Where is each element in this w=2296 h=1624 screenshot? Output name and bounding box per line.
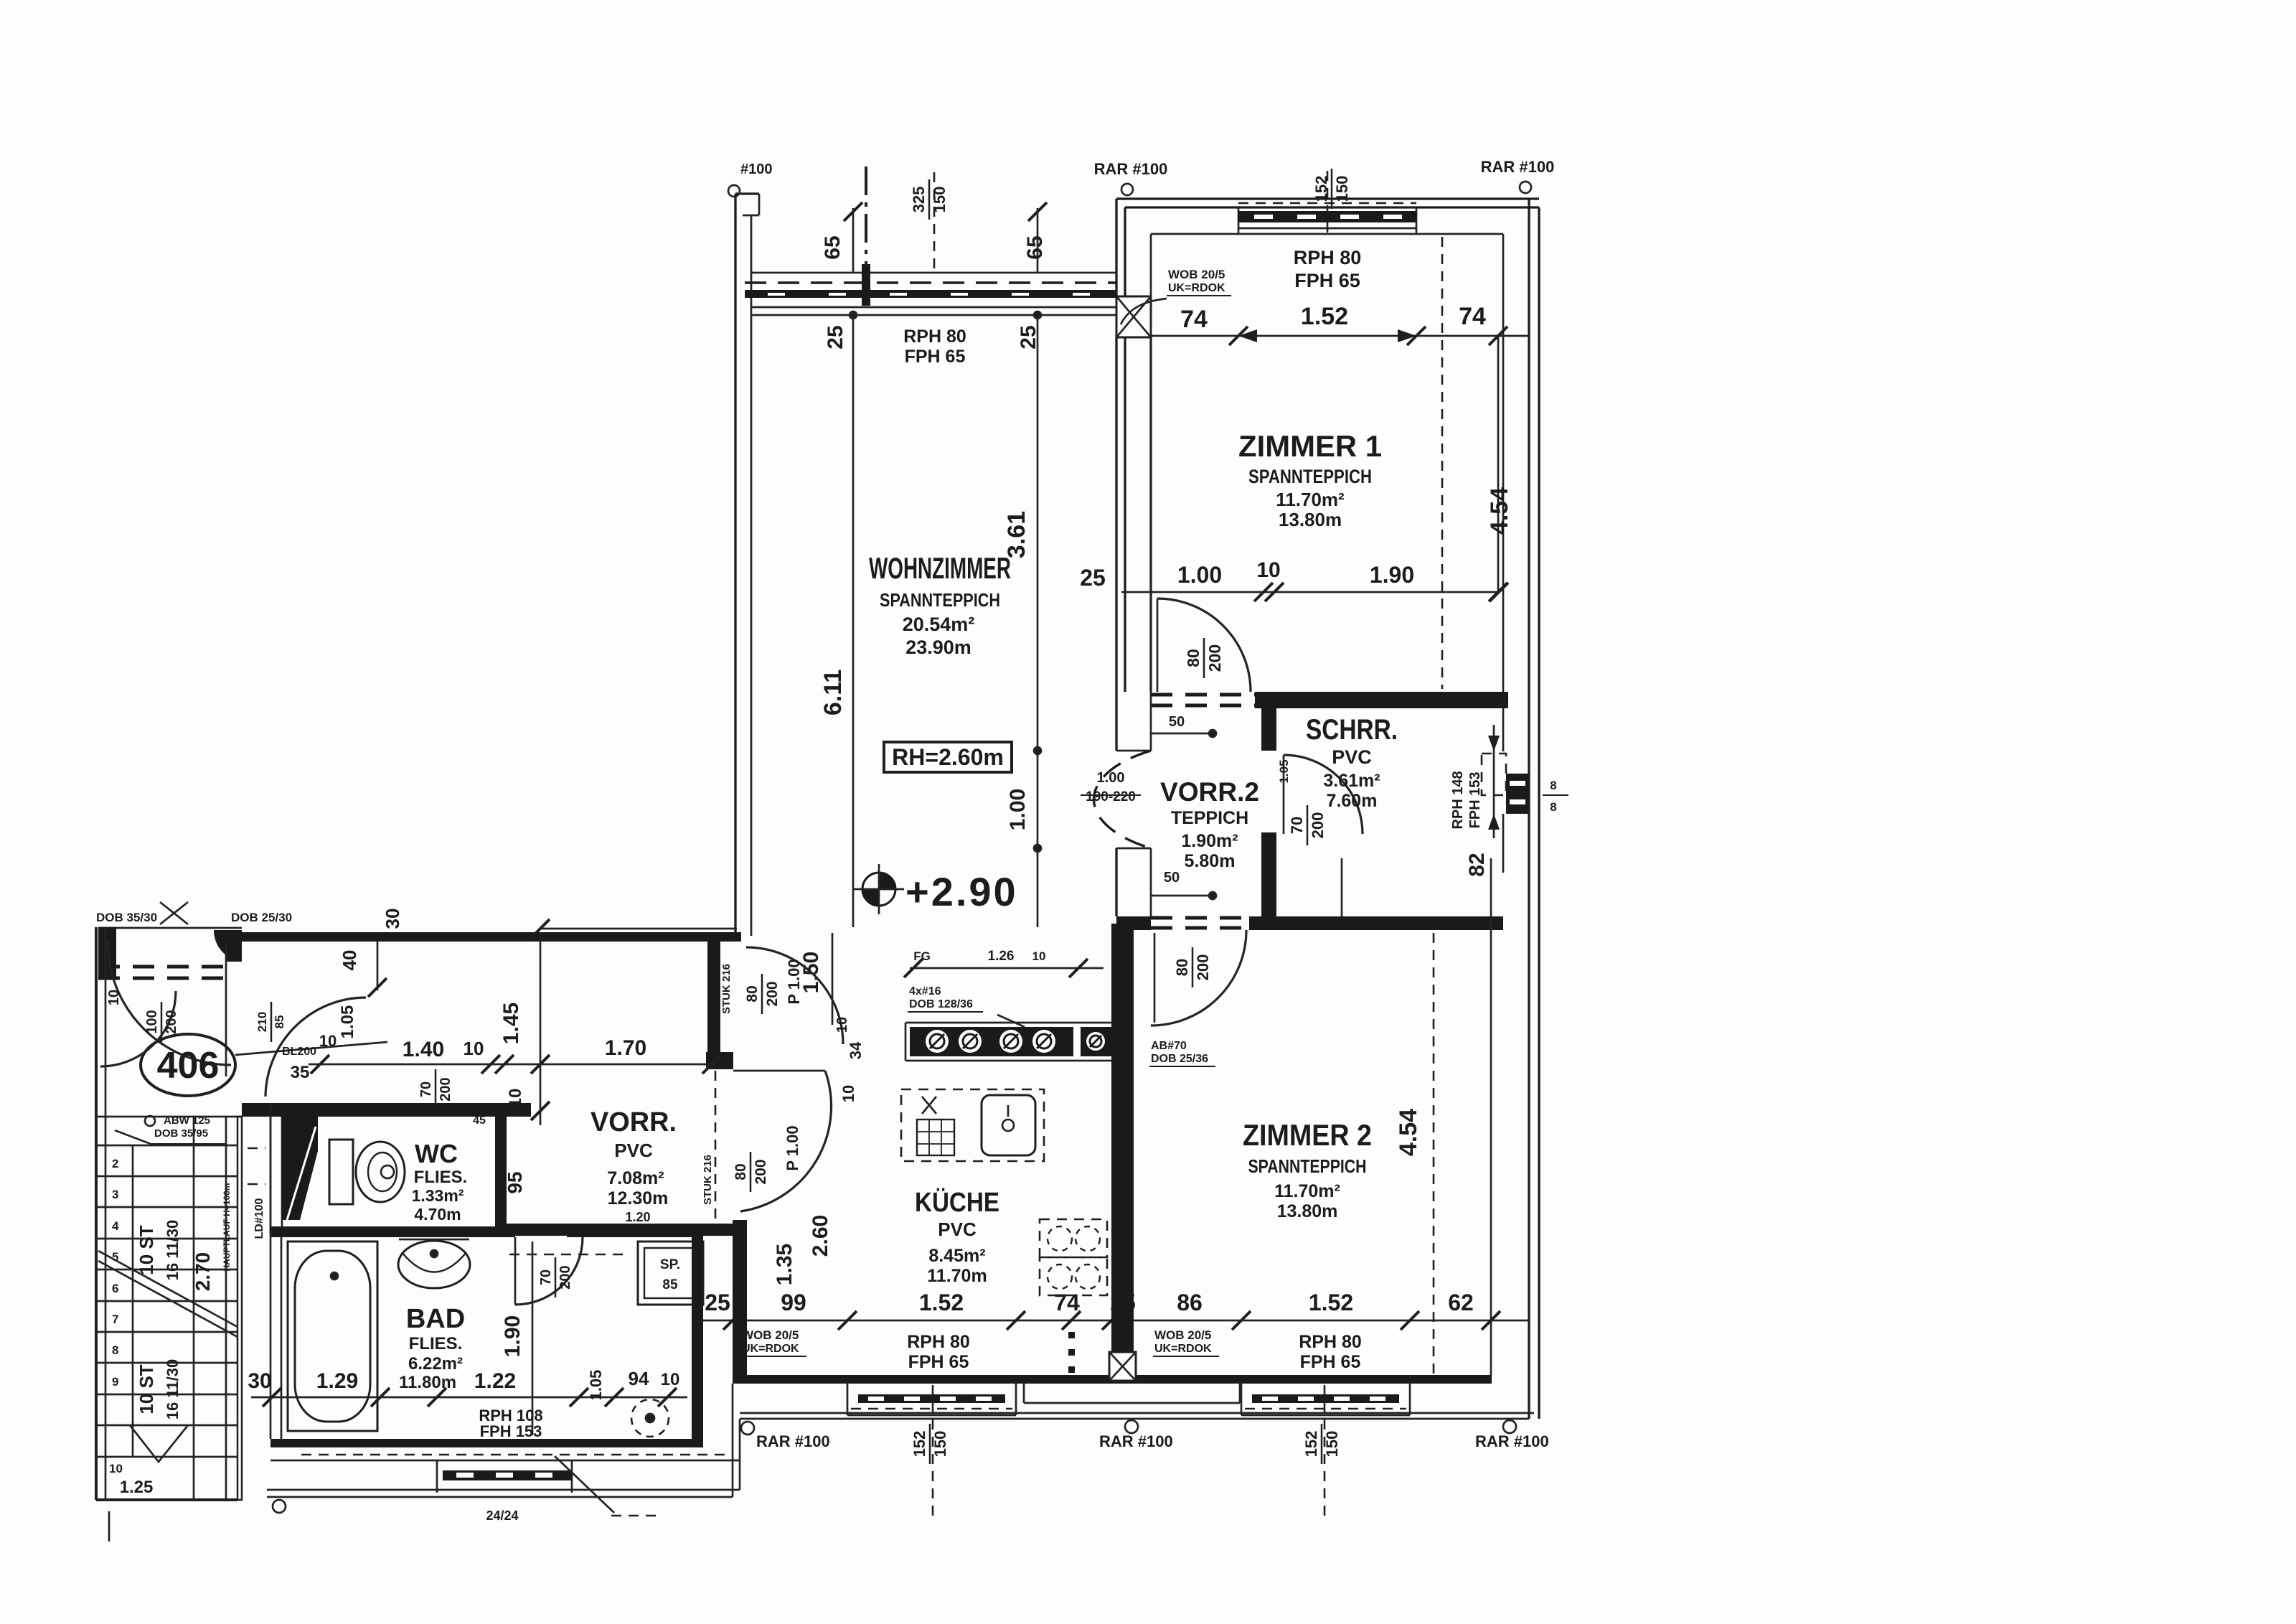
svg-text:70: 70 [1288,817,1306,834]
wall between WOHNZIMMER and ZIMMER1 block [1115,337,1117,692]
BAD west wall [270,1235,272,1439]
hall dashed lines [98,965,230,969]
small labels near entrance [255,1002,286,1042]
svg-text:SPANNTEPPICH: SPANNTEPPICH [1248,1155,1367,1177]
svg-text:200: 200 [1205,644,1224,672]
svg-text:UK=RDOK: UK=RDOK [742,1343,799,1355]
svg-text:16 11/30: 16 11/30 [164,1220,182,1280]
svg-text:5.80m: 5.80m [1185,851,1236,871]
svg-text:FPH 65: FPH 65 [1300,1352,1361,1372]
three dots door marker [1068,1332,1075,1338]
svg-text:AB#70: AB#70 [1151,1040,1187,1052]
svg-text:1.45: 1.45 [499,1003,523,1044]
svg-text:PVC: PVC [1332,746,1372,768]
small hatch square [922,1097,936,1114]
svg-text:1.35: 1.35 [773,1244,796,1285]
svg-text:PVC: PVC [938,1219,977,1240]
svg-text:99: 99 [781,1290,806,1315]
bottom dim row BAD y1947 [251,1397,687,1399]
wall south of VORR.2/SCHRR [1249,916,1503,930]
bottom window zimmer2 [1241,1382,1243,1415]
svg-text:UK=RDOK: UK=RDOK [1168,282,1225,294]
svg-text:23.90m: 23.90m [905,637,971,658]
svg-text:10: 10 [1256,558,1280,582]
svg-text:8: 8 [1550,779,1556,792]
stair direction diagonals [98,1251,237,1327]
svg-text:1.00: 1.00 [1177,562,1222,588]
svg-text:74: 74 [1180,306,1208,333]
sink unit dashed [901,1089,1044,1161]
svg-text:10 ST: 10 ST [136,1225,157,1275]
window axes bottom [932,1385,934,1523]
svg-text:1.05: 1.05 [338,1005,357,1039]
stove dashed squares [1040,1219,1107,1257]
stair hall west wall [95,927,98,1500]
dim 3.61 / 1.00 vertical [1037,315,1039,927]
SP box [638,1242,703,1305]
arch opening WOHNZIMMER to VORR.2 (dashed) [1094,751,1152,848]
svg-text:62: 62 [1448,1290,1474,1315]
svg-text:200: 200 [753,1159,769,1184]
svg-text:BL200: BL200 [282,1046,316,1058]
svg-text:RAR #100: RAR #100 [1099,1432,1173,1450]
svg-text:200: 200 [1194,954,1212,981]
wall WOHNZ/VORR2 segments [1115,692,1117,751]
duct wall right of stairs [270,1117,272,1235]
svg-text:6.22m²: 6.22m² [408,1354,463,1374]
svg-text:12.30m: 12.30m [608,1188,669,1208]
window right wall (SCHRR east) [1506,774,1529,814]
svg-text:10: 10 [106,990,122,1005]
svg-text:FPH 153: FPH 153 [1467,772,1483,829]
svg-text:RAR #100: RAR #100 [1094,160,1168,178]
survey point +2.90 [862,873,895,906]
svg-text:SP.: SP. [660,1257,680,1272]
svg-text:16 11/30: 16 11/30 [164,1359,182,1419]
svg-text:UK=RDOK: UK=RDOK [1154,1343,1212,1355]
svg-text:P 1.00: P 1.00 [784,1125,801,1170]
svg-text:WOB 20/5: WOB 20/5 [1154,1328,1211,1342]
kitchen counter with burners [910,1027,1073,1056]
svg-text:1.90: 1.90 [1370,562,1414,588]
svg-text:74: 74 [1054,1290,1080,1315]
wall WOHNZIMMER west [734,194,736,936]
svg-text:FPH 65: FPH 65 [908,1352,969,1372]
svg-text:25: 25 [824,325,847,349]
svg-text:11.80m: 11.80m [399,1373,456,1392]
terrace below BAD [301,1454,732,1456]
svg-text:4.54: 4.54 [1395,1109,1422,1156]
svg-text:65: 65 [821,235,844,259]
svg-text:7: 7 [112,1313,118,1326]
svg-text:1.20: 1.20 [625,1210,650,1224]
svg-text:9: 9 [112,1375,118,1389]
entrance door arc 406 [108,942,231,1065]
svg-text:RPH 148: RPH 148 [1450,771,1466,829]
svg-text:1.26: 1.26 [988,949,1015,964]
svg-text:6: 6 [112,1282,118,1295]
svg-text:ZIMMER 1: ZIMMER 1 [1238,429,1382,463]
svg-text:1.52: 1.52 [1309,1290,1353,1315]
X mark above [160,902,188,924]
svg-text:SPANNTEPPICH: SPANNTEPPICH [880,589,1000,611]
svg-text:WOHNZIMMER: WOHNZIMMER [869,551,1011,585]
wall BAD south [270,1439,703,1447]
svg-text:4x#16: 4x#16 [909,985,941,998]
svg-text:35: 35 [291,1063,310,1082]
door arc SCHRR [1284,755,1363,834]
svg-text:10: 10 [834,1017,850,1033]
svg-text:86: 86 [1177,1290,1203,1315]
svg-text:200: 200 [764,981,781,1006]
svg-text:50: 50 [1164,870,1180,886]
terrace line south [740,1412,1534,1414]
svg-text:24/24: 24/24 [486,1508,518,1523]
svg-text:85: 85 [273,1015,286,1029]
svg-text:190-220: 190-220 [1086,789,1136,804]
svg-text:150: 150 [1323,1431,1341,1458]
svg-text:1.52: 1.52 [919,1290,964,1315]
svg-text:RPH 80: RPH 80 [907,1332,970,1352]
svg-text:2.60: 2.60 [809,1215,832,1257]
junction X box bottom [1109,1352,1136,1381]
svg-text:70: 70 [538,1269,554,1285]
svg-text:FLIES.: FLIES. [409,1334,463,1353]
svg-text:STUK 216: STUK 216 [720,964,733,1014]
svg-text:1.90m²: 1.90m² [1181,831,1238,851]
kitchen west wall [733,1220,747,1375]
svg-text:VORR.: VORR. [591,1107,677,1137]
door arc BAD [514,1237,517,1305]
svg-text:80: 80 [733,1163,749,1180]
svg-text:LD#100: LD#100 [253,1198,265,1239]
svg-text:11.70m²: 11.70m² [1276,489,1345,510]
toilet [329,1140,353,1204]
svg-text:30: 30 [248,1369,271,1393]
svg-text:11.70m: 11.70m [927,1266,987,1286]
section dash-dot line [865,166,867,267]
svg-text:DOB 35/95: DOB 35/95 [154,1127,208,1140]
RAR anchors bottom [741,1422,754,1435]
svg-text:RPH 80: RPH 80 [1294,247,1362,268]
svg-text:4.54: 4.54 [1486,487,1513,535]
svg-text:DOB 35/30: DOB 35/30 [96,911,157,924]
balcony parapet band [751,272,1116,274]
washbasin [399,1239,469,1241]
svg-text:1.00: 1.00 [1097,770,1125,786]
svg-text:10: 10 [661,1370,680,1389]
svg-text:7.08m²: 7.08m² [607,1168,664,1188]
svg-text:80: 80 [744,985,761,1002]
slab edge line above corridor [540,928,737,930]
svg-text:DOB 25/36: DOB 25/36 [1151,1053,1208,1065]
svg-text:150: 150 [1333,176,1351,202]
svg-text:WOB 20/5: WOB 20/5 [1168,268,1225,281]
svg-text:1.70: 1.70 [605,1036,646,1060]
svg-text:ZIMMER 2: ZIMMER 2 [1243,1118,1372,1152]
svg-text:325: 325 [910,187,928,213]
svg-text:1.22: 1.22 [474,1369,516,1393]
svg-text:11.70m²: 11.70m² [1274,1181,1340,1201]
svg-text:85: 85 [662,1277,678,1292]
svg-text:34: 34 [847,1041,865,1059]
svg-text:10: 10 [464,1038,484,1059]
svg-text:80: 80 [1173,959,1191,976]
counter outline [905,1022,1115,1024]
tiny 8/8 labels [1543,794,1568,796]
ZIMMER2 right inner wall [1490,858,1492,1375]
stair top landing line [96,1116,242,1118]
entrance wall blobs [98,927,116,977]
svg-text:40: 40 [339,950,360,971]
svg-text:10: 10 [109,1462,123,1475]
dashed wall corridor/kitchen [715,1071,717,1220]
svg-text:74: 74 [1459,303,1486,330]
BAD east wall [692,1237,703,1447]
label 406 oval [141,1034,235,1096]
svg-text:13.80m: 13.80m [1279,509,1342,530]
WC east wall [495,1103,507,1235]
svg-text:RAR #100: RAR #100 [1475,1432,1549,1450]
svg-text:200: 200 [1309,812,1327,839]
svg-text:WOB 20/5: WOB 20/5 [742,1328,799,1342]
svg-text:RPH 80: RPH 80 [1299,1332,1362,1352]
dimension line 74 | 1.52 | 74 (ZIMMER1 window) [1151,335,1529,337]
svg-text:10: 10 [1032,949,1046,963]
ZIMMER1 room inner boundary [1151,233,1503,235]
door arc to WOHNZIMMER [746,947,843,1044]
svg-text:FG: FG [913,949,931,963]
svg-text:TEPPICH: TEPPICH [1171,808,1248,828]
wall WC north [242,1103,531,1117]
WC door arc [265,998,366,1097]
label 80/200 door ZIMMER1 [1184,638,1224,678]
boxed label RH=2.60m [884,742,1012,772]
svg-text:152: 152 [1302,1431,1320,1458]
wall BAD north (with door opening) [270,1226,515,1237]
dim row corridor y1483 [309,1064,712,1066]
svg-text:50: 50 [1169,714,1185,730]
svg-text:VORR.2: VORR.2 [1160,777,1259,807]
svg-text:1.40: 1.40 [403,1038,444,1061]
kitchen / zimmer2 wall [1111,924,1134,1352]
door arc ZIMMER1 [1157,599,1251,692]
svg-text:FLIES.: FLIES. [414,1168,468,1187]
dimension line 1.00 | 10 | 1.90 (ZIMMER1 south) [1121,591,1499,593]
svg-text:7.60m: 7.60m [1327,791,1378,811]
svg-text:8: 8 [1550,800,1556,814]
bathtub [288,1242,377,1431]
svg-text:25: 25 [1080,565,1106,591]
wall VORR.2 / SCHRR [1261,708,1276,751]
bottom dimension row kitchen/zimmer2 [700,1320,1529,1322]
svg-text:1.05: 1.05 [1277,759,1291,783]
junction box X symbol (wall crossing at balcony/zimmer1) [1116,296,1151,337]
svg-text:1.29: 1.29 [316,1369,358,1393]
svg-text:4: 4 [112,1219,119,1233]
svg-text:3.61m²: 3.61m² [1323,771,1380,791]
svg-text:94: 94 [629,1368,649,1389]
svg-text:FPH 65: FPH 65 [905,347,966,367]
svg-text:150: 150 [931,1431,949,1458]
svg-text:DOB 25/30: DOB 25/30 [231,911,292,924]
stair bottom landing [96,1498,237,1501]
svg-text:82: 82 [1465,853,1489,876]
ZIMMER1 window (north) [1238,207,1240,234]
svg-text:FPH 153: FPH 153 [480,1422,542,1440]
dim 82 window [1493,725,1495,838]
svg-text:RAR #100: RAR #100 [756,1432,830,1450]
middle spandrel [1023,1382,1025,1403]
svg-text:RAR #100: RAR #100 [1481,158,1555,176]
svg-text:RPH 80: RPH 80 [903,327,966,347]
dark shaft in WC [282,1117,318,1220]
dim 1.50 vertical [832,933,834,1025]
svg-text:ABW 125: ABW 125 [164,1114,210,1127]
svg-text:1.25: 1.25 [120,1478,154,1497]
svg-text:80: 80 [1184,649,1203,667]
svg-text:65: 65 [1023,235,1047,259]
centerline ZIMMER1 [1441,237,1444,689]
floor drain [631,1399,669,1437]
svg-text:2: 2 [112,1157,118,1170]
svg-text:8.45m²: 8.45m² [928,1246,985,1266]
svg-text:1.00: 1.00 [1006,789,1030,830]
door arc ZIMMER 2 [1151,930,1246,1025]
bottom window kitchen [847,1382,849,1415]
section line bar [862,264,870,306]
dims above balcony [852,208,855,273]
svg-text:100: 100 [144,1010,160,1033]
svg-text:45: 45 [473,1114,486,1127]
wall ZIMMER1 south (with door opening) [1255,692,1508,708]
dim 6.11 vertical [852,315,855,927]
svg-text:HAUPTLAUF H=100m: HAUPTLAUF H=100m [222,1183,232,1271]
outer wall top (north, right block) [1116,197,1539,200]
svg-text:+2.90: +2.90 [905,869,1018,914]
svg-text:152: 152 [911,1431,928,1458]
svg-text:FPH 65: FPH 65 [1294,270,1360,291]
svg-text:25: 25 [705,1290,730,1315]
dim line FG 1.26 [910,967,1104,970]
wall face line entrance [98,927,242,929]
svg-text:6.11: 6.11 [819,670,847,715]
svg-text:406: 406 [157,1045,220,1086]
svg-text:RH=2.60m: RH=2.60m [892,744,1004,770]
ZIMMER2 / kitchen bottom wall [733,1375,1492,1384]
svg-text:95: 95 [504,1171,526,1193]
label 152/150 window axis ZIMMER1 [1312,169,1351,209]
door arc to KUECHE [733,1070,825,1072]
wall left edge of right block [1115,199,1117,296]
svg-text:30: 30 [382,909,403,929]
svg-text:1.05: 1.05 [587,1370,605,1401]
svg-text:SPANNTEPPICH: SPANNTEPPICH [1248,466,1372,487]
svg-text:1.90: 1.90 [501,1315,524,1357]
svg-text:1.52: 1.52 [1301,303,1348,330]
svg-text:DOB 128/36: DOB 128/36 [909,998,973,1010]
stair bottom arrow [130,1425,188,1462]
svg-text:4.70m: 4.70m [414,1205,461,1224]
dim 4.54 (ZIMMER1 right) [1497,336,1500,592]
dim line 25/25 inside [751,314,1116,316]
svg-text:10 ST: 10 ST [136,1364,157,1414]
svg-text:200: 200 [557,1265,573,1289]
svg-text:STUK 216: STUK 216 [702,1155,714,1205]
svg-text:20.54m²: 20.54m² [903,614,975,635]
svg-text:2.70: 2.70 [192,1252,214,1292]
svg-text:P 1.00: P 1.00 [785,959,803,1004]
stair vertical dividers [132,1145,134,1457]
svg-text:SCHRR.: SCHRR. [1306,714,1398,746]
wall stub WOHNZ door [707,942,720,1053]
stair steps [96,1145,237,1147]
outer wall right (east) [1528,199,1530,1419]
svg-text:1.33m²: 1.33m² [412,1186,464,1205]
svg-text:8: 8 [112,1343,118,1357]
hall door arc (stairs side) [100,991,176,1066]
dim vertical x753 [540,932,542,1125]
svg-text:210: 210 [255,1012,269,1032]
svg-text:KÜCHE: KÜCHE [915,1187,999,1218]
svg-text:200: 200 [164,1010,179,1033]
dim 1.90 vertical [532,1242,534,1435]
svg-text:PVC: PVC [614,1140,653,1161]
svg-text:10: 10 [839,1085,857,1102]
WC west walls [270,1103,272,1235]
label RPH 148 / FPH 153 rotated [1450,771,1483,829]
svg-text:70: 70 [418,1081,434,1097]
wall corridor north [242,932,741,942]
svg-text:200: 200 [438,1077,453,1101]
corridor bottom wall [500,1224,733,1236]
svg-text:13.80m: 13.80m [1277,1201,1338,1221]
svg-text:WC: WC [415,1139,458,1168]
svg-text:#100: #100 [740,161,773,177]
svg-text:BAD: BAD [406,1304,465,1334]
svg-text:3: 3 [112,1188,118,1201]
